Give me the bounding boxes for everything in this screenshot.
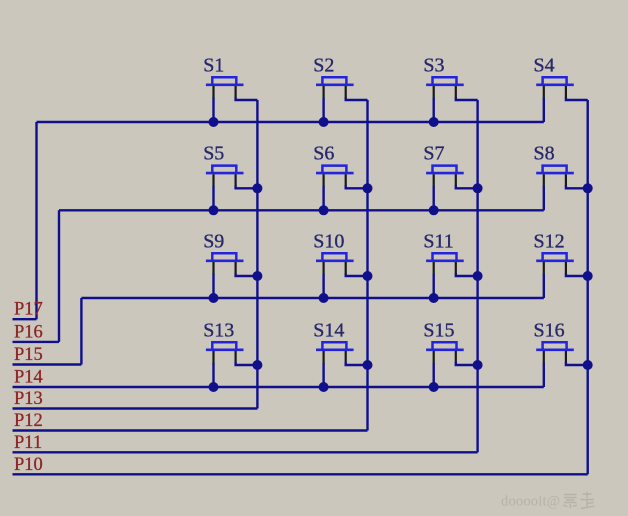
label S16	[534, 319, 565, 341]
junction S7 pin 2 on column 3	[473, 183, 483, 193]
junction S5 pin 2 on column 1	[252, 183, 262, 193]
node P12	[14, 411, 43, 431]
wire S5 pin 2 dogleg to column 1	[236, 185, 258, 188]
wire row 4 net (P14) horizontal	[13, 386, 544, 388]
node P14	[14, 368, 43, 388]
pushbutton S5	[206, 166, 244, 174]
wire S16 pin 2 dogleg to column 4	[566, 362, 588, 365]
watermark dooooit@baozou	[501, 490, 601, 510]
wire S15 pin 2 dogleg to column 3	[456, 362, 478, 365]
wire P10 horizontal	[13, 473, 588, 475]
svg-text:S2: S2	[313, 54, 334, 76]
wire S3 pin 1 to row 1	[433, 98, 435, 122]
svg-text:P11: P11	[14, 433, 42, 453]
pin 2 of S7 (right)	[455, 174, 457, 185]
pin 1 of S4 (left)	[543, 86, 545, 99]
junction S11 pin 2 on column 3	[473, 271, 483, 281]
wire column 4 vertical	[587, 100, 589, 474]
label S11	[423, 230, 453, 252]
pushbutton S16	[536, 342, 574, 350]
wire S13 pin 2 dogleg to column 1	[236, 362, 258, 365]
node P13	[14, 389, 43, 409]
pushbutton S4	[536, 77, 574, 85]
svg-text:S8: S8	[534, 143, 555, 165]
svg-text:S9: S9	[203, 230, 224, 252]
pin 1 of S16 (left)	[543, 351, 545, 364]
node P10	[14, 455, 43, 475]
junction S13 pin 1 on row 4	[209, 382, 219, 392]
wire row 3 net (P15) horizontal	[81, 297, 543, 299]
pushbutton S3	[426, 77, 464, 85]
pushbutton S10	[316, 253, 354, 260]
junction S6 pin 2 on column 2	[363, 183, 373, 193]
pushbutton S14	[316, 342, 354, 350]
svg-text:S6: S6	[313, 143, 334, 165]
svg-text:P12: P12	[14, 411, 43, 431]
pin 2 of S8 (right)	[565, 174, 567, 185]
pushbutton S7	[426, 166, 464, 174]
wire S14 pin 2 dogleg to column 2	[346, 362, 368, 365]
pin 1 of S15 (left)	[433, 351, 435, 364]
wire S10 pin 1 to row 3	[322, 274, 324, 298]
pin 2 of S11 (right)	[455, 262, 457, 273]
label S8	[534, 143, 555, 165]
pin 1 of S1 (left)	[212, 86, 214, 99]
wire column 3 vertical	[476, 100, 478, 452]
wire S8 pin 1 to row 2	[543, 186, 545, 210]
wire S1 pin 1 to row 1	[212, 98, 214, 122]
wire S15 pin 1 to row 4	[433, 363, 435, 387]
pin 2 of S5 (right)	[235, 174, 237, 185]
wire S4 pin 1 to row 1	[543, 98, 545, 122]
wire S8 pin 2 dogleg to column 4	[566, 185, 588, 188]
label S5	[203, 143, 224, 165]
label S1	[203, 54, 224, 76]
wire row 2 net (P16) horizontal	[59, 209, 544, 211]
pin 1 of S14 (left)	[323, 351, 325, 364]
svg-text:S10: S10	[313, 230, 344, 252]
wire P12 horizontal	[13, 429, 368, 431]
wire S12 pin 1 to row 3	[543, 274, 545, 298]
svg-text:S1: S1	[203, 54, 224, 76]
junction S10 pin 2 on column 2	[363, 271, 373, 281]
pushbutton S1	[206, 77, 244, 85]
wire S6 pin 1 to row 2	[322, 186, 324, 210]
wire S2 pin 2 dogleg to column 2	[346, 97, 368, 100]
wire S3 pin 2 dogleg to column 3	[456, 97, 478, 100]
pin 1 of S13 (left)	[212, 351, 214, 364]
label S12	[534, 230, 565, 252]
junction S9 pin 1 on row 3	[209, 293, 219, 303]
svg-text:P15: P15	[14, 345, 43, 365]
wire S12 pin 2 dogleg to column 4	[566, 273, 588, 276]
wire S11 pin 2 dogleg to column 3	[456, 273, 478, 276]
wire P17 horizontal	[13, 318, 37, 320]
wire P11 horizontal	[13, 451, 478, 453]
pin 1 of S9 (left)	[212, 262, 214, 275]
pushbutton S9	[206, 253, 244, 260]
wire S4 pin 2 dogleg to column 4	[566, 97, 588, 100]
wire P16 vertical riser to row 2	[58, 210, 60, 342]
junction S14 pin 1 on row 4	[319, 382, 329, 392]
junction S10 pin 1 on row 3	[319, 293, 329, 303]
junction S8 pin 2 on column 4	[583, 183, 593, 193]
pin 1 of S12 (left)	[543, 262, 545, 275]
junction S2 pin 1 on row 1	[319, 117, 329, 127]
svg-text:S12: S12	[534, 230, 565, 252]
pin 1 of S7 (left)	[433, 174, 435, 187]
pin 1 of S10 (left)	[323, 262, 325, 275]
node P17	[14, 300, 43, 320]
pin 1 of S5 (left)	[212, 174, 214, 187]
pin 2 of S12 (right)	[565, 262, 567, 273]
svg-text:S11: S11	[423, 230, 453, 252]
wire P17 vertical riser to row 1	[35, 122, 37, 319]
wire P16 horizontal	[13, 341, 60, 343]
pushbutton S13	[206, 342, 244, 350]
junction S12 pin 2 on column 4	[583, 271, 593, 281]
wire S7 pin 2 dogleg to column 3	[456, 185, 478, 188]
wire column 1 vertical	[256, 100, 258, 409]
label S6	[313, 143, 334, 165]
wire column 2 vertical	[366, 100, 368, 431]
svg-text:S14: S14	[313, 319, 344, 341]
pin 2 of S15 (right)	[455, 351, 457, 362]
pushbutton S6	[316, 166, 354, 174]
wire S9 pin 1 to row 3	[212, 274, 214, 298]
pin 2 of S2 (right)	[345, 86, 347, 97]
svg-text:S13: S13	[203, 319, 234, 341]
wire P15 horizontal	[13, 363, 82, 365]
wire S7 pin 1 to row 2	[433, 186, 435, 210]
svg-text:P17: P17	[14, 300, 43, 320]
svg-text:S5: S5	[203, 143, 224, 165]
pin 1 of S6 (left)	[323, 174, 325, 187]
svg-text:S16: S16	[534, 319, 565, 341]
wire S1 pin 2 dogleg to column 1	[236, 97, 258, 100]
junction S7 pin 1 on row 2	[429, 205, 439, 215]
junction S1 pin 1 on row 1	[209, 117, 219, 127]
label S4	[534, 54, 555, 76]
wire S2 pin 1 to row 1	[322, 98, 324, 122]
label S14	[313, 319, 344, 341]
svg-text:dooooit@: dooooit@	[501, 494, 560, 510]
wire P15 vertical riser to row 3	[80, 298, 82, 365]
pushbutton S2	[316, 77, 354, 85]
wire S10 pin 2 dogleg to column 2	[346, 273, 368, 276]
label S3	[423, 54, 444, 76]
wire row 1 net (P17) horizontal	[37, 121, 544, 123]
svg-text:P10: P10	[14, 455, 43, 475]
wire S5 pin 1 to row 2	[212, 186, 214, 210]
junction S15 pin 1 on row 4	[429, 382, 439, 392]
node P11	[14, 433, 42, 453]
wire S13 pin 1 to row 4	[212, 363, 214, 387]
pin 2 of S1 (right)	[235, 86, 237, 97]
label S10	[313, 230, 344, 252]
junction S3 pin 1 on row 1	[429, 117, 439, 127]
junction S13 pin 2 on column 1	[252, 360, 262, 370]
label S7	[423, 143, 444, 165]
wire S14 pin 1 to row 4	[322, 363, 324, 387]
label S13	[203, 319, 234, 341]
pin 2 of S3 (right)	[455, 86, 457, 97]
svg-text:S4: S4	[534, 54, 555, 76]
junction S11 pin 1 on row 3	[429, 293, 439, 303]
pin 2 of S13 (right)	[235, 351, 237, 362]
svg-text:S7: S7	[423, 143, 444, 165]
pin 2 of S6 (right)	[345, 174, 347, 185]
label S2	[313, 54, 334, 76]
pushbutton S11	[426, 253, 464, 260]
pin 1 of S8 (left)	[543, 174, 545, 187]
junction S9 pin 2 on column 1	[252, 271, 262, 281]
pin 2 of S4 (right)	[565, 86, 567, 97]
svg-text:S3: S3	[423, 54, 444, 76]
wire P13 horizontal	[13, 407, 258, 409]
pin 2 of S14 (right)	[345, 351, 347, 362]
label S9	[203, 230, 224, 252]
pin 2 of S9 (right)	[235, 262, 237, 273]
pin 1 of S11 (left)	[433, 262, 435, 275]
pushbutton S15	[426, 342, 464, 350]
wire S9 pin 2 dogleg to column 1	[236, 273, 258, 276]
pin 1 of S3 (left)	[433, 86, 435, 99]
pin 2 of S16 (right)	[565, 351, 567, 362]
pushbutton S8	[536, 166, 574, 174]
pin 1 of S2 (left)	[323, 86, 325, 99]
wire S16 pin 1 to row 4	[543, 363, 545, 387]
junction S14 pin 2 on column 2	[363, 360, 373, 370]
svg-text:S15: S15	[423, 319, 454, 341]
junction S6 pin 1 on row 2	[319, 205, 329, 215]
pushbutton S12	[536, 253, 574, 260]
wire S6 pin 2 dogleg to column 2	[346, 185, 368, 188]
pin 2 of S10 (right)	[345, 262, 347, 273]
label S15	[423, 319, 454, 341]
svg-text:P13: P13	[14, 389, 43, 409]
svg-text:P16: P16	[14, 322, 43, 342]
svg-text:P14: P14	[14, 368, 43, 388]
junction S15 pin 2 on column 3	[473, 360, 483, 370]
wire S11 pin 1 to row 3	[433, 274, 435, 298]
junction S5 pin 1 on row 2	[209, 205, 219, 215]
node P16	[14, 322, 43, 342]
junction S16 pin 2 on column 4	[583, 360, 593, 370]
node P15	[14, 345, 43, 365]
